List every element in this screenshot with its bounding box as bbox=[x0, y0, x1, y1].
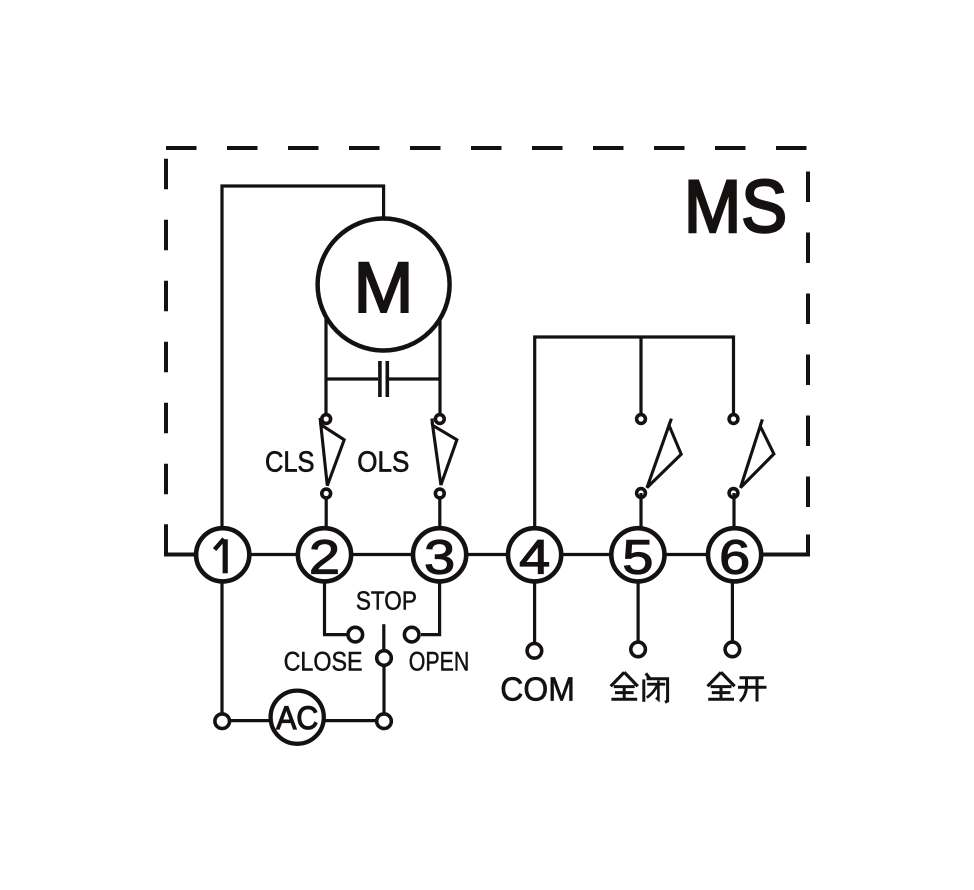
STOP switch pole wire bbox=[382, 624, 385, 650]
node: junction right of AC bbox=[377, 714, 392, 729]
svg-text:5: 5 bbox=[622, 532, 653, 585]
svg-text:MS: MS bbox=[684, 165, 787, 248]
svg-text:AC: AC bbox=[276, 700, 318, 736]
limit switch OLS blade bbox=[433, 425, 457, 485]
wire: terminal 5 down to open terminal bbox=[636, 555, 639, 642]
STOP contact circle bbox=[377, 651, 392, 666]
capacitor (motor run capacitor) left wire bbox=[326, 377, 378, 380]
svg-text:OLS: OLS bbox=[357, 446, 409, 478]
svg-text:3: 3 bbox=[424, 532, 455, 585]
switch S5 bottom pin bbox=[637, 489, 646, 498]
svg-text:6: 6 bbox=[719, 532, 750, 585]
switch S6 top pin bbox=[729, 415, 738, 424]
wire: motor left lead down to CLS bbox=[324, 300, 327, 416]
AC bottom wire bbox=[229, 719, 377, 722]
enclosure dashed border (left side) bbox=[164, 159, 168, 500]
limit switch CLS top pin bbox=[322, 415, 331, 424]
terminal 2 circle bbox=[298, 528, 351, 581]
wire: terminal 1 riser up and across to motor bbox=[222, 186, 384, 530]
capacitor right plate bbox=[385, 361, 389, 397]
wire: S5 bottom pin to terminal 5 bbox=[639, 493, 642, 530]
AC source circle bbox=[271, 691, 324, 744]
svg-text:COM: COM bbox=[500, 671, 575, 708]
enclosure dashed border (top side) bbox=[166, 146, 808, 150]
svg-text:CLOSE: CLOSE bbox=[284, 646, 363, 676]
wire: terminal 2 down to CLOSE contact bbox=[325, 555, 348, 635]
limit switch CLS bottom pin bbox=[322, 489, 331, 498]
motor U1 circle bbox=[318, 219, 450, 351]
terminal strip wire (terminals 1-6 row) bbox=[196, 553, 763, 556]
terminal 5 circle bbox=[611, 528, 664, 581]
open terminal circle (full open) bbox=[725, 642, 740, 657]
switch S5 top pin bbox=[637, 415, 646, 424]
terminal 4 circle bbox=[508, 528, 561, 581]
wire: terminal 3 down to OPEN contact bbox=[421, 555, 440, 635]
OPEN contact circle bbox=[404, 627, 419, 642]
label 闭 (of 全闭), hanzi drawn as strokes bbox=[644, 673, 668, 702]
terminal 1 circle bbox=[196, 528, 249, 581]
wire: terminal 6 down to open terminal bbox=[731, 555, 734, 642]
switch S6 bottom pin bbox=[729, 489, 738, 498]
svg-text:2: 2 bbox=[309, 532, 340, 585]
wire: motor right lead down to OLS bbox=[438, 300, 441, 416]
switch S5 blade (full-close limit) bbox=[647, 425, 681, 487]
wire: CLS bottom pin to terminal 2 bbox=[325, 493, 328, 530]
label 全 (of 全开), hanzi drawn as strokes bbox=[708, 672, 735, 699]
terminal 1 digit bbox=[215, 539, 226, 574]
svg-text:STOP: STOP bbox=[356, 585, 417, 615]
wire: terminal 1 down to AC node bbox=[220, 555, 223, 713]
enclosure dashed border (right side) bbox=[806, 172, 810, 509]
terminal 6 circle bbox=[708, 528, 761, 581]
limit switch OLS top pin bbox=[435, 415, 444, 424]
limit switch OLS bottom pin bbox=[435, 489, 444, 498]
enclosure border bottom-left corner bbox=[166, 524, 196, 554]
svg-text:M: M bbox=[354, 249, 414, 328]
terminal 3 circle bbox=[413, 528, 466, 581]
CLOSE contact circle bbox=[348, 627, 363, 642]
wire: S6 bottom pin to terminal 6 bbox=[732, 493, 735, 530]
capacitor right wire bbox=[389, 377, 440, 380]
wire: OLS bottom pin to terminal 3 bbox=[438, 493, 441, 530]
enclosure border bottom-right corner bbox=[763, 535, 808, 555]
label 全 (of 全闭), hanzi drawn as strokes bbox=[611, 672, 638, 699]
sensor common bus wire (terminal 4 riser up, across to switch 6) bbox=[535, 337, 734, 530]
COM open terminal circle bbox=[527, 644, 542, 659]
node: junction left of AC bbox=[215, 714, 230, 729]
svg-text:4: 4 bbox=[519, 532, 550, 585]
capacitor left plate bbox=[378, 361, 382, 397]
svg-text:OPEN: OPEN bbox=[409, 646, 470, 676]
open terminal circle (full close) bbox=[631, 642, 646, 657]
limit switch CLS blade bbox=[321, 425, 344, 486]
svg-text:CLS: CLS bbox=[265, 446, 315, 478]
wire: STOP contact down to AC node bbox=[382, 666, 385, 713]
wire: bus drop to switch S5 bbox=[639, 337, 642, 415]
wire: terminal 4 down to COM terminal bbox=[533, 555, 536, 643]
switch S6 blade (full-open limit) bbox=[741, 426, 774, 488]
label 开 (of 全开), hanzi drawn as strokes bbox=[738, 678, 767, 702]
